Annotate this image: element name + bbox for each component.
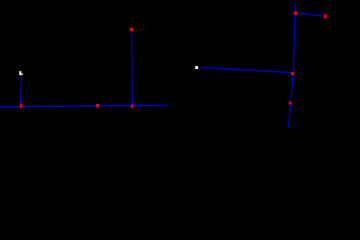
wire — [20, 76, 23, 106]
junction — [131, 105, 133, 109]
junction — [130, 28, 133, 31]
junction — [96, 104, 99, 107]
junction — [324, 15, 327, 18]
junction — [294, 12, 297, 15]
junction — [289, 102, 292, 105]
wire — [201, 67, 292, 72]
junction — [291, 72, 294, 75]
wire — [0, 105, 168, 106]
node A — [19, 71, 23, 75]
wire — [298, 13, 324, 16]
junction — [20, 104, 22, 108]
node B — [195, 66, 198, 69]
wire — [131, 32, 134, 106]
wire — [288, 2, 295, 128]
